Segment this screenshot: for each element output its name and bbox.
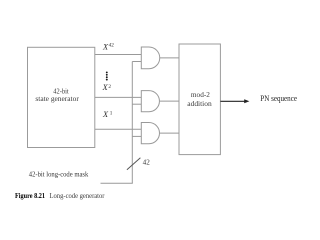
output arrow to PN sequence: [220, 99, 249, 103]
svg-text:PN sequence: PN sequence: [260, 94, 297, 103]
wire X42 tap from state generator to AND gate 1: [95, 54, 142, 56]
svg-text:X: X: [102, 110, 109, 119]
svg-text:addition: addition: [187, 99, 212, 108]
mask bus vertical wire: [131, 62, 133, 184]
gate 1 output wire: [160, 57, 179, 59]
svg-text:42-bit long-code mask: 42-bit long-code mask: [29, 170, 89, 179]
svg-text:Figure 8.21: Figure 8.21: [15, 191, 45, 200]
AND gate 2: [141, 91, 159, 112]
mod-2 addition label: [187, 90, 212, 108]
wire X1 tap from state generator to AND gate 3: [95, 128, 142, 130]
svg-text:2: 2: [108, 84, 111, 90]
node label X^2: [102, 83, 112, 92]
svg-text:state generator: state generator: [35, 94, 79, 103]
bus width slash: [127, 158, 140, 170]
svg-text:1: 1: [110, 111, 113, 117]
svg-text:Long-code generator: Long-code generator: [50, 192, 106, 200]
mask stub to gate 3: [132, 135, 141, 137]
vertical ellipsis between taps: [106, 71, 108, 80]
svg-text:mod-2: mod-2: [191, 90, 210, 99]
wire X2 tap from state generator to AND gate 2: [95, 96, 142, 98]
mask horizontal wire: [101, 182, 133, 184]
node label X^42: [102, 43, 114, 52]
mask stub to gate 1: [132, 61, 141, 63]
42-bit state generator box: [28, 47, 95, 147]
AND gate 3: [141, 123, 159, 144]
gate 3 output wire: [160, 132, 179, 134]
mod-2 addition box: [179, 44, 220, 155]
svg-text:42: 42: [109, 43, 115, 49]
mask stub to gate 2: [132, 103, 141, 105]
figure caption: [15, 191, 105, 200]
AND gate 1: [141, 47, 159, 69]
node label X^1: [102, 110, 113, 119]
svg-text:42: 42: [143, 159, 151, 167]
gate 2 output wire: [160, 100, 179, 102]
42-bit state generator label: [35, 87, 79, 103]
